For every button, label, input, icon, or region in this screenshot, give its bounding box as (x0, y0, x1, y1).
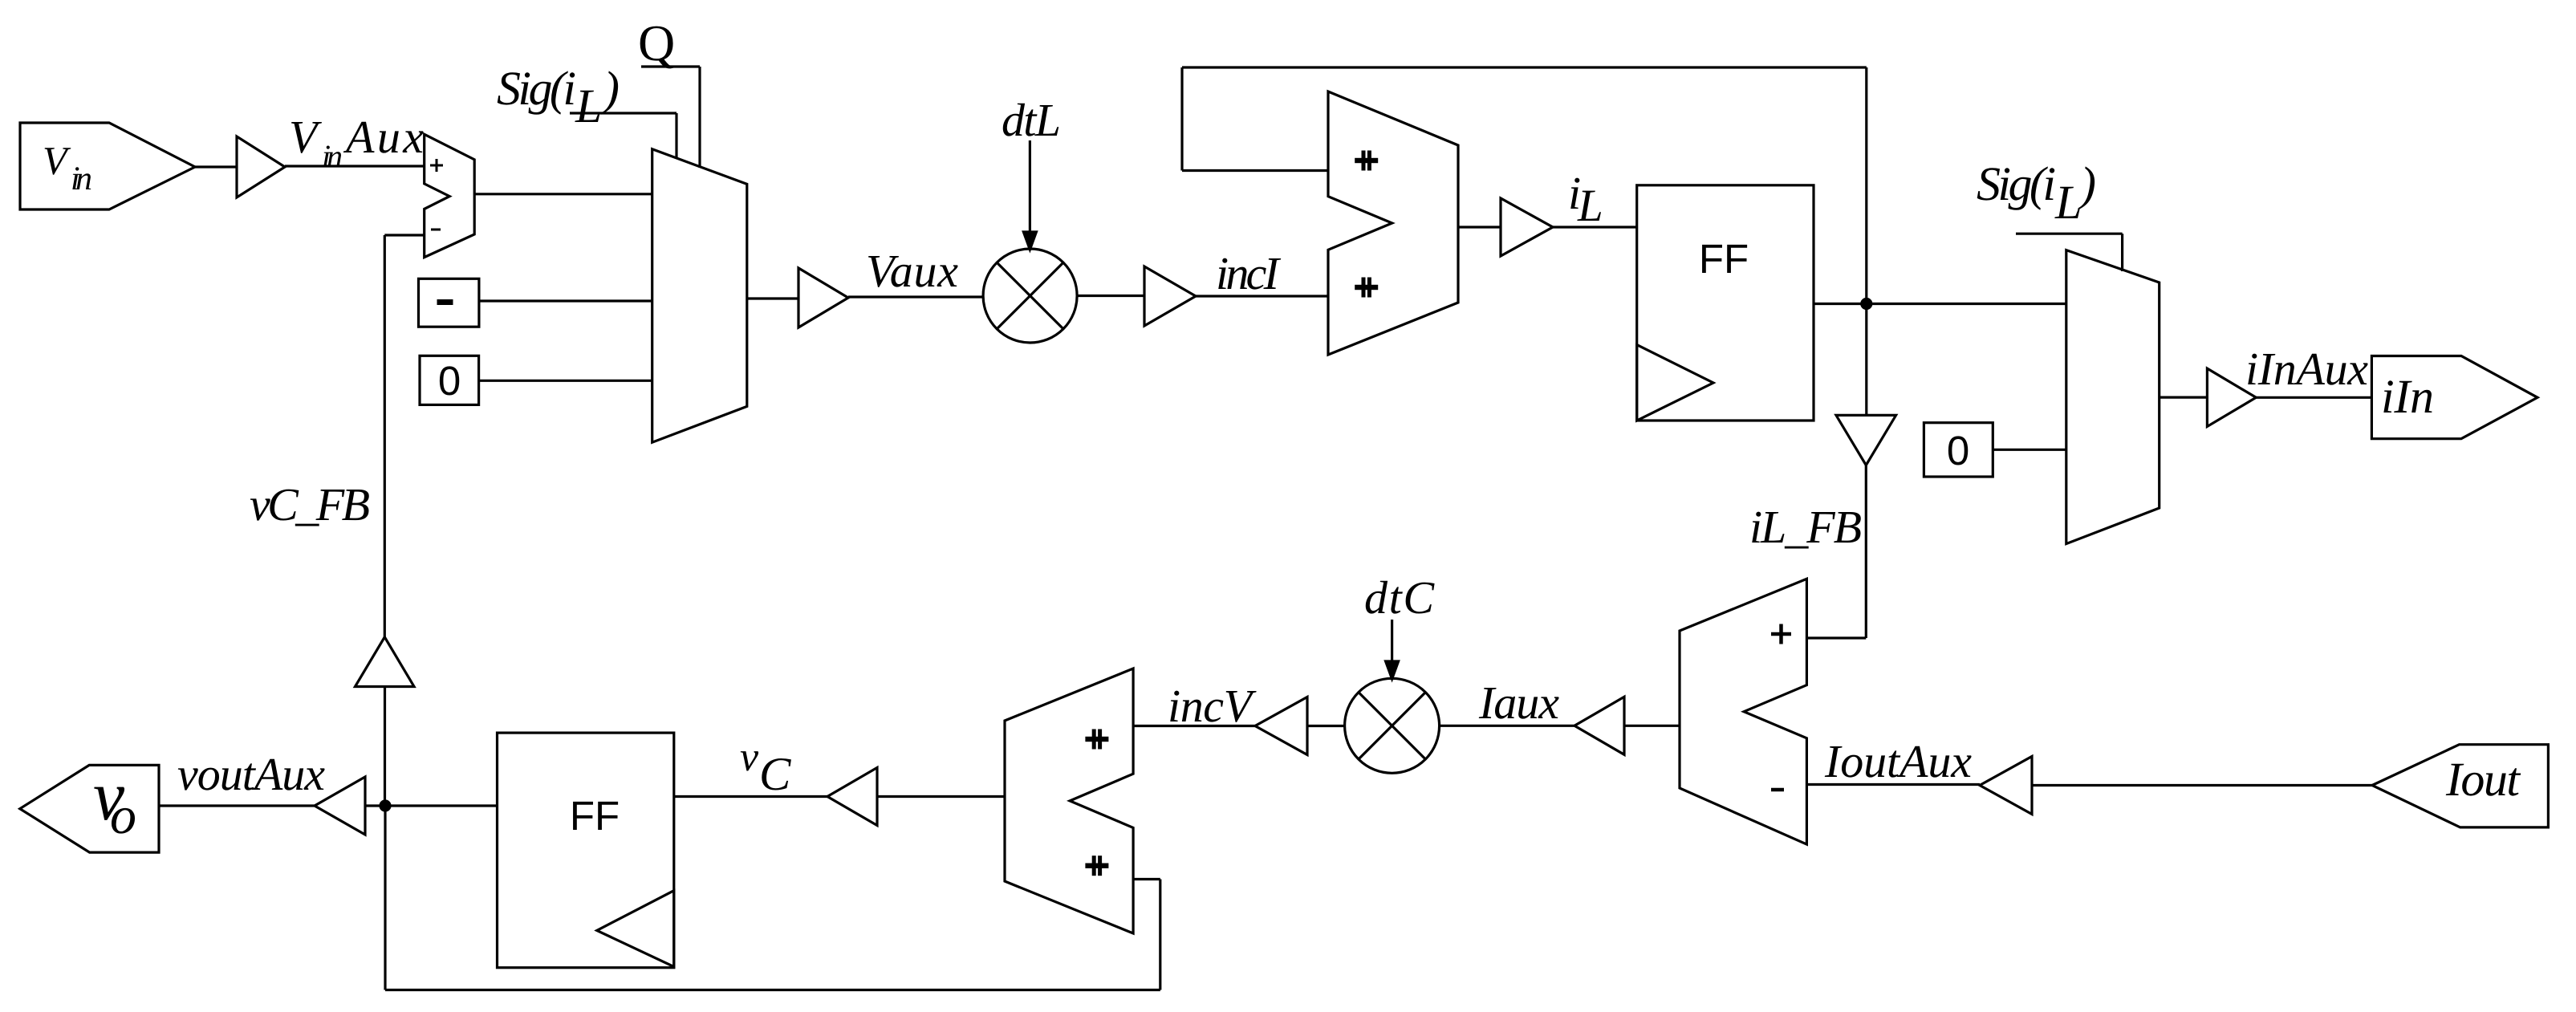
svg-text:C: C (759, 747, 791, 800)
svg-text:L: L (575, 79, 602, 132)
svg-text:Sig(i: Sig(i (497, 62, 576, 115)
svg-text:FF: FF (1699, 236, 1749, 282)
svg-text:incV: incV (1168, 680, 1258, 732)
svg-text:Q: Q (638, 14, 675, 71)
svg-text:voutAux: voutAux (177, 748, 325, 800)
svg-text:v: v (740, 734, 759, 780)
svg-text:): ) (2078, 157, 2096, 210)
svg-text:): ) (601, 62, 620, 115)
svg-text:Aux: Aux (343, 111, 424, 163)
svg-text:incI: incI (1216, 247, 1282, 299)
svg-text:Iout: Iout (2445, 753, 2521, 806)
svg-text:iInAux: iInAux (2245, 343, 2368, 395)
svg-text:dtL: dtL (1002, 94, 1061, 146)
svg-text:L: L (2054, 176, 2082, 229)
svg-text:o: o (110, 786, 136, 845)
svg-text:0: 0 (1947, 428, 1969, 473)
svg-text:iIn: iIn (2381, 370, 2434, 423)
svg-text:in: in (322, 138, 343, 174)
svg-text:iL_FB: iL_FB (1749, 501, 1862, 553)
svg-text:Sig(i: Sig(i (1977, 157, 2056, 210)
svg-text:Vaux: Vaux (866, 245, 958, 297)
svg-text:0: 0 (438, 358, 461, 404)
svg-text:in: in (71, 161, 92, 197)
svg-text:FF: FF (570, 793, 620, 839)
svg-text:vC_FB: vC_FB (250, 478, 370, 530)
svg-text:IoutAux: IoutAux (1824, 735, 1972, 787)
svg-text:L: L (1577, 181, 1603, 231)
svg-text:Iaux: Iaux (1478, 677, 1559, 729)
svg-text:dtC: dtC (1364, 571, 1435, 624)
